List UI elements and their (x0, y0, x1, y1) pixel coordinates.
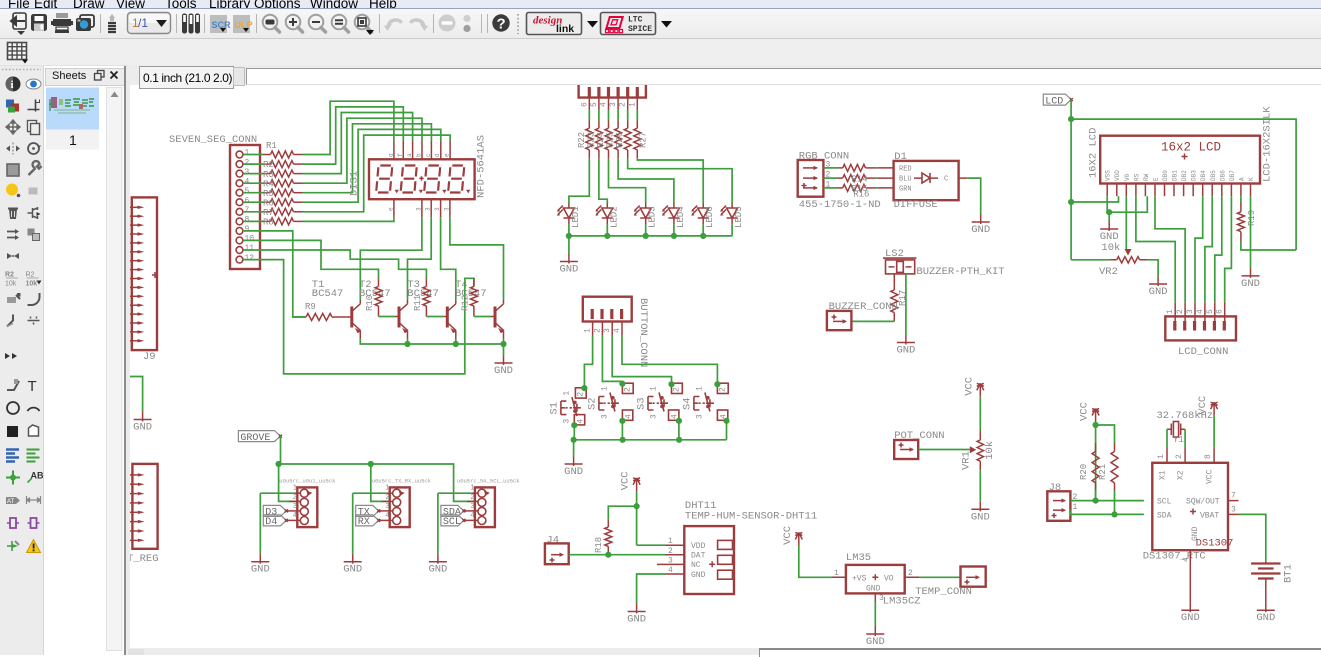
svg-text:2: 2 (470, 494, 474, 502)
resistor R25 (606, 110, 622, 159)
svg-text:6: 6 (1216, 309, 1225, 314)
resistor R5 (243, 189, 303, 199)
svg-text:u0u5rc_TX_RX_uu5ck: u0u5rc_TX_RX_uu5ck (372, 478, 432, 485)
wire VR2 right to GND (1147, 260, 1158, 277)
wire BUTTON_CONN pin2 to S2 (602, 336, 622, 384)
svg-text:R9: R9 (305, 302, 316, 312)
ground below LM35 (874, 627, 876, 637)
svg-text:5: 5 (245, 187, 250, 196)
svg-text:LM35: LM35 (846, 552, 871, 564)
connector LED_CONN (579, 84, 646, 110)
crystal Y1 32.768kHz (1157, 410, 1214, 445)
svg-text:R22: R22 (577, 132, 587, 148)
design link button (527, 13, 582, 36)
image/export icon (76, 15, 94, 31)
connector POT_CONN (894, 430, 944, 459)
svg-text:2: 2 (619, 102, 628, 107)
svg-text:VCC: VCC (963, 377, 975, 396)
svg-text:SCL: SCL (1157, 498, 1172, 507)
svg-text:RED: RED (899, 165, 912, 173)
svg-text:/1: /1 (138, 16, 148, 30)
svg-text:LED6: LED6 (705, 206, 715, 228)
svg-text:DIS1: DIS1 (349, 171, 361, 196)
wire Y1 to X1/X2 (1167, 429, 1185, 447)
wire pin9 to R9 (243, 231, 306, 317)
separator (176, 14, 178, 33)
svg-text:VSS: VSS (1105, 170, 1112, 181)
svg-text:3: 3 (434, 207, 441, 211)
ground below D1 (980, 215, 982, 225)
svg-text:e: e (387, 207, 394, 211)
svg-text:16x2 LCD: 16x2 LCD (1161, 141, 1221, 155)
power VCC for LM35 (799, 546, 831, 577)
svg-text:2: 2 (623, 387, 632, 392)
svg-text:LED3: LED3 (648, 206, 658, 228)
resistor R24 (596, 110, 612, 159)
svg-text:R14: R14 (851, 174, 867, 184)
wire R23 to LED2 (599, 159, 607, 203)
svg-text:4: 4 (624, 414, 633, 419)
wire R6 to DIS1 top pin (303, 129, 441, 202)
svg-text:R16: R16 (853, 190, 869, 200)
resistor R10 (365, 278, 399, 316)
svg-text:R25: R25 (606, 132, 616, 148)
svg-text:BUTTON_CONN: BUTTON_CONN (637, 298, 649, 367)
coordinate band (128, 65, 1321, 85)
ground below K (1250, 268, 1252, 278)
wire BUTTON_CONN pin1 to S1 (584, 336, 592, 388)
connector T_REG (127, 464, 159, 565)
LCD module 16x2 (1088, 106, 1274, 197)
svg-text:GRN: GRN (899, 185, 912, 193)
svg-text:VCC: VCC (1206, 469, 1215, 484)
svg-text:a: a (406, 153, 413, 157)
svg-text:R18: R18 (594, 537, 604, 553)
svg-text:u0u5rc_u0u1_uu5ck: u0u5rc_u0u1_uu5ck (279, 478, 336, 485)
wire J8 SCL to DS1307 pin6 (1070, 490, 1144, 501)
svg-text:GND: GND (564, 466, 583, 478)
wire VBAT to BT1 (1239, 514, 1266, 560)
svg-text:7: 7 (1231, 492, 1236, 501)
connector J8 (1047, 482, 1077, 521)
switch S1 (548, 388, 586, 425)
separator (100, 14, 102, 33)
svg-text:GND: GND (971, 511, 990, 523)
ground below DHT11 (636, 604, 638, 614)
svg-text:u0u5rc_5A_5CL_uu5ck: u0u5rc_5A_5CL_uu5ck (457, 478, 520, 485)
svg-text:3: 3 (695, 414, 704, 419)
resistor R22 (577, 110, 593, 159)
svg-text:RX: RX (358, 517, 370, 528)
svg-text:3: 3 (609, 102, 618, 107)
svg-text:DB3: DB3 (1191, 170, 1198, 181)
svg-text:D4: D4 (265, 517, 277, 528)
svg-text:V0: V0 (1124, 173, 1131, 181)
wire R8 to DIS1 dp pin (303, 217, 394, 221)
wire R4 to DIS1 top pin (303, 118, 423, 183)
connector SEVEN_SEG_CONN (169, 134, 260, 269)
svg-text:4: 4 (470, 512, 474, 520)
svg-text:2: 2 (385, 494, 389, 502)
svg-text:DB7: DB7 (1229, 170, 1236, 181)
ULP button (233, 15, 253, 33)
svg-text:VDD: VDD (691, 542, 706, 551)
svg-text:2: 2 (718, 387, 727, 392)
wire S3 to bus (678, 421, 680, 440)
svg-text:4: 4 (293, 512, 297, 520)
thumbnail (46, 88, 99, 130)
svg-text:4: 4 (1196, 309, 1205, 314)
resistor R19 (1237, 196, 1257, 241)
wire pin10 to R10 (243, 240, 379, 278)
svg-text:6: 6 (245, 197, 250, 206)
svg-text:SQW/OUT: SQW/OUT (1186, 498, 1220, 507)
svg-text:GND: GND (1241, 278, 1260, 290)
svg-text:10k: 10k (984, 441, 996, 460)
resistor R4 (243, 179, 303, 189)
sensor DHT11 (666, 500, 818, 594)
wire digit3 to T3 collector (441, 217, 456, 299)
RGB LED D1 DIFFUSE (878, 151, 967, 211)
wire J4 to DHT11 DAT (569, 554, 666, 556)
ground below grove connector (259, 493, 261, 554)
wire R26 to LED5 (628, 159, 732, 203)
wire LCD net (1071, 100, 1296, 260)
svg-text:3: 3 (470, 503, 474, 511)
wire DB7 to LCD_CONN pin6 (1225, 196, 1232, 302)
resistor R1 (243, 151, 303, 158)
wire buzzer to GND (905, 274, 907, 335)
switch S4 (681, 383, 728, 420)
wire DHT11 NC stub (657, 563, 666, 565)
svg-text:LCD-16X2SILK: LCD-16X2SILK (1262, 106, 1274, 182)
power VCC for DS1307 (1213, 416, 1215, 448)
svg-text:X1: X1 (1159, 470, 1168, 480)
wire R17 to BUZZER_CONN (851, 320, 894, 322)
svg-text:2: 2 (245, 158, 250, 167)
svg-text:3: 3 (650, 414, 659, 419)
resistor R21 (1098, 443, 1118, 490)
wire R3 to DIS1 top pin (303, 113, 413, 174)
redo (411, 20, 425, 27)
LED LED1 (557, 203, 581, 228)
wire digit4 to T4 collector (450, 217, 504, 299)
resistor R8 (243, 218, 303, 228)
svg-text:2: 2 (673, 387, 682, 392)
resistor R12 (460, 278, 495, 316)
svg-text:S4: S4 (681, 397, 693, 410)
svg-text:5: 5 (590, 102, 599, 107)
svg-text:NC: NC (691, 561, 701, 570)
svg-text:1: 1 (584, 328, 593, 333)
wire digit2 to T2 collector (408, 217, 432, 299)
svg-text:DB0: DB0 (1162, 170, 1169, 181)
wire VR2 left to LCD net (1071, 259, 1110, 261)
svg-text:T: T (28, 378, 37, 395)
wire LM35 out to TEMP_CONN (919, 576, 960, 578)
svg-text:A: A (1238, 177, 1245, 181)
svg-text:DS1307_RTC: DS1307_RTC (1143, 551, 1206, 563)
LED LED2 (596, 203, 620, 228)
svg-text:DIFFUSE: DIFFUSE (894, 199, 938, 211)
svg-text:E: E (1153, 177, 1160, 181)
svg-text:1: 1 (385, 485, 389, 493)
svg-text:GROVE: GROVE (240, 433, 270, 444)
svg-text:3: 3 (443, 207, 450, 211)
svg-text:2: 2 (293, 494, 297, 502)
svg-text:R20: R20 (1079, 464, 1089, 480)
svg-text:GND: GND (428, 564, 447, 576)
wire LED6 to bus (702, 224, 704, 236)
junction dots emitter bus (404, 341, 410, 347)
wire R25 to LED4 (618, 159, 674, 203)
svg-text:4: 4 (613, 328, 622, 333)
net label SDA / SCL (441, 505, 464, 516)
ground below grove connector (352, 493, 354, 554)
resistor R7 (243, 208, 303, 218)
svg-text:3: 3 (562, 419, 571, 424)
connector GROVE_SDA (438, 478, 520, 528)
svg-text:SCL: SCL (443, 517, 461, 528)
svg-text:VDD: VDD (1114, 170, 1121, 181)
open icon (11, 13, 26, 35)
svg-text:RS: RS (1133, 173, 1140, 181)
svg-text:1: 1 (650, 386, 659, 391)
svg-text:12: 12 (245, 254, 255, 263)
svg-text:VO: VO (884, 575, 894, 584)
svg-text:1: 1 (562, 391, 571, 396)
resistor R13 (823, 164, 878, 171)
svg-text:1: 1 (69, 132, 77, 148)
svg-text:2: 2 (668, 547, 673, 556)
svg-text:K: K (1248, 177, 1255, 181)
resistor R18 (594, 519, 612, 554)
left tool palette (0, 66, 44, 655)
svg-text:?: ? (497, 16, 506, 33)
svg-text:2: 2 (908, 569, 913, 578)
svg-text:3: 3 (385, 503, 389, 511)
svg-text:e: e (444, 153, 451, 157)
svg-text:4: 4 (385, 512, 389, 520)
svg-text:NFD-5641AS: NFD-5641AS (476, 135, 488, 198)
wire R27 to LED6 (637, 159, 703, 203)
svg-text:DS1307: DS1307 (1196, 538, 1234, 550)
svg-text:DB2: DB2 (1181, 170, 1188, 181)
resistor R3 (243, 170, 303, 180)
power VCC for R20/R21 (1096, 422, 1115, 501)
svg-text:3: 3 (600, 414, 609, 419)
resistor R9 (293, 302, 352, 321)
zoom redraw (355, 15, 372, 32)
connector J9 (128, 197, 158, 363)
separator (433, 14, 435, 33)
svg-text:f: f (397, 153, 404, 157)
connector GROVE_D3 (260, 478, 336, 528)
connector RGB_CONN (798, 151, 881, 212)
svg-text:LED2: LED2 (609, 206, 619, 228)
splitter (124, 66, 130, 655)
svg-text:3: 3 (668, 556, 673, 565)
svg-text:3: 3 (245, 168, 250, 177)
svg-text:RW: RW (1143, 173, 1150, 181)
svg-text:GND: GND (133, 422, 152, 434)
svg-text:GND: GND (559, 264, 578, 276)
drop icon (108, 14, 116, 32)
separators (482, 14, 488, 33)
ground below VR1 (979, 502, 981, 512)
net label TX / RX (356, 505, 379, 516)
wire LED5 to bus (731, 224, 733, 236)
separator (379, 14, 381, 33)
zoom in (286, 15, 303, 32)
resistor R11 (413, 278, 447, 316)
resistor R17 (891, 274, 908, 322)
svg-text:1: 1 (293, 485, 297, 493)
svg-text:4: 4 (245, 177, 250, 186)
sheet combo 1/1 (128, 13, 171, 34)
sheets panel (44, 66, 124, 655)
ground below J9 (142, 412, 144, 422)
svg-text:i: i (11, 79, 14, 91)
svg-text:Y1: Y1 (1173, 435, 1184, 445)
svg-text:LTC: LTC (628, 16, 643, 25)
ground below VSS (1108, 222, 1110, 232)
svg-text:8: 8 (1204, 454, 1213, 459)
svg-text:DB5: DB5 (1210, 170, 1217, 181)
wire LED2 to bus (606, 224, 608, 236)
transistor T2 BC547 (359, 279, 408, 339)
svg-text:BLU: BLU (899, 176, 912, 184)
svg-text:R19: R19 (1247, 210, 1257, 226)
svg-text:DB6: DB6 (1219, 170, 1226, 181)
svg-text:+VS: +VS (852, 575, 867, 584)
resistor R20 (1079, 443, 1099, 490)
wire POT_CONN to VR1 wiper (918, 449, 970, 451)
svg-text:R12: R12 (460, 295, 470, 311)
svg-text:VCC: VCC (782, 526, 794, 545)
close icon (111, 72, 118, 79)
run dots (463, 15, 470, 22)
svg-text:3: 3 (415, 207, 422, 211)
wire S1 to bus (573, 426, 575, 440)
bottom strips (128, 648, 759, 655)
switch S3 (636, 383, 683, 420)
svg-text:c: c (425, 153, 432, 157)
svg-text:R21: R21 (1098, 464, 1108, 480)
resistor R23 (586, 110, 602, 159)
svg-text:R8: R8 (263, 218, 274, 228)
separator (204, 14, 206, 33)
svg-text:R26: R26 (615, 132, 625, 148)
svg-text:T_REG: T_REG (127, 553, 159, 565)
potentiometer VR1 10k (961, 430, 996, 470)
ground below grove connector (437, 493, 439, 554)
wire R24 to LED3 (609, 159, 646, 203)
svg-text:VCC: VCC (620, 471, 632, 490)
svg-text:AT: AT (7, 499, 15, 505)
wire pin12 to R12 (243, 260, 474, 374)
wire RS to LCD_CONN pin1 (1136, 196, 1175, 302)
svg-text:R23: R23 (586, 132, 596, 148)
net label GROVE (238, 431, 280, 442)
svg-text:b: b (416, 153, 423, 157)
svg-text:3: 3 (1186, 309, 1195, 314)
svg-text:GND: GND (1149, 286, 1168, 298)
svg-text:1: 1 (245, 149, 250, 158)
wire LED3 to bus (645, 224, 647, 236)
LED LED3 (634, 203, 658, 228)
svg-text:TEMP-HUM-SENSOR-DHT11: TEMP-HUM-SENSOR-DHT11 (685, 511, 817, 523)
svg-text:R11: R11 (413, 295, 423, 311)
help icon (492, 14, 509, 31)
display DIS1 NFD-5641AS (349, 135, 488, 217)
svg-text:GND: GND (343, 564, 362, 576)
print icon (51, 13, 73, 33)
wire emitter bus (360, 339, 503, 356)
svg-text:VCC: VCC (1079, 402, 1091, 421)
resistor R14 (823, 174, 878, 184)
svg-text:11: 11 (245, 244, 255, 253)
svg-text:1: 1 (628, 102, 637, 107)
wire S2 to bus (621, 421, 623, 440)
wire R22 to LED1 (569, 159, 589, 203)
wire R7 to DIS1 top pin (303, 135, 451, 212)
wire button ground bus (574, 439, 727, 441)
ground below VR2 (1157, 277, 1159, 287)
resistor R15 (823, 184, 878, 194)
resistor R26 (615, 110, 631, 159)
svg-text:4: 4 (1182, 557, 1191, 562)
svg-text:2: 2 (593, 328, 602, 333)
svg-text:LCD_CONN: LCD_CONN (1178, 346, 1228, 358)
zoom out (309, 15, 326, 32)
svg-text:R27: R27 (638, 132, 648, 148)
main toolbar (0, 9, 1321, 39)
svg-text:3: 3 (293, 503, 297, 511)
svg-text:1: 1 (600, 386, 609, 391)
svg-text:X2: X2 (1177, 470, 1186, 480)
wire LED4 to bus (673, 224, 675, 236)
svg-text:7: 7 (245, 206, 250, 215)
svg-text:8: 8 (245, 216, 250, 225)
transistor T3 BC547 (407, 279, 456, 339)
wire R1 to DIS1 top pin (303, 101, 394, 154)
wire LED1 to bus (568, 224, 570, 236)
wire D1 cathode to GND (967, 178, 980, 214)
wire LM35 to GND (874, 602, 876, 627)
dotted handle (517, 14, 519, 34)
svg-text:5: 5 (1206, 309, 1215, 314)
svg-text:GND: GND (866, 636, 885, 648)
svg-text:1: 1 (1073, 503, 1078, 512)
svg-text:2: 2 (1175, 454, 1184, 459)
LTC SPICE button (601, 13, 656, 35)
svg-text:LED4: LED4 (676, 206, 686, 228)
connector J4 (545, 534, 569, 564)
svg-text:BC547: BC547 (312, 288, 344, 300)
connector BUZZER_CONN (827, 301, 898, 330)
connector BUTTON_CONN (583, 297, 649, 368)
svg-text:R2: R2 (5, 272, 14, 279)
svg-text:S3: S3 (636, 397, 648, 410)
buzzer LS2 BUZZER-PTH_KIT (883, 248, 1005, 278)
svg-text:R10: R10 (365, 295, 375, 311)
svg-text:2: 2 (576, 392, 585, 397)
second row with grid icon (0, 39, 1321, 66)
wire DB6 to LCD_CONN pin5 (1215, 196, 1222, 302)
svg-text:4: 4 (668, 566, 673, 575)
svg-text:GND: GND (691, 571, 706, 580)
